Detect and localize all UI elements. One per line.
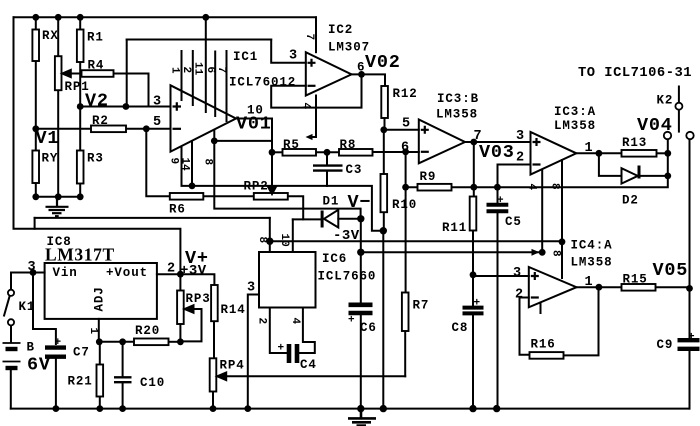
wire K2 stem — [678, 87, 680, 104]
junction dot IC8 pin3 — [30, 269, 37, 276]
svg-text:+: + — [278, 343, 285, 355]
wire IC2 noninverting input feed — [271, 40, 306, 63]
junction dot bottom rail V- column — [357, 405, 364, 412]
svg-text:8: 8 — [202, 159, 214, 166]
wire R14 bottom to RP4 — [213, 321, 215, 358]
wire pins9-14 row to R10 bottom node — [192, 186, 384, 231]
svg-text:RP2: RP2 — [244, 180, 269, 194]
svg-text:V04: V04 — [637, 115, 673, 136]
junction dot V02 node — [358, 71, 365, 78]
wire D2 branch down — [599, 153, 622, 176]
wire R9 right lead — [452, 186, 474, 188]
resistor R14 body — [211, 285, 218, 321]
svg-text:3: 3 — [513, 266, 522, 281]
junction dot ADJ pin1 — [96, 338, 103, 345]
op-amp IC3A minus symbol — [533, 163, 541, 165]
wire rail-2 +3V distribution — [35, 229, 181, 274]
svg-text:IC3:A: IC3:A — [554, 105, 596, 119]
junction dot top rail RX — [32, 14, 39, 21]
svg-text:R16: R16 — [531, 338, 556, 352]
wire D1 anode to V- node — [338, 218, 361, 220]
svg-text:+: + — [474, 298, 481, 310]
wire R3 bottom to ground row — [79, 184, 81, 197]
resistor R4 body — [82, 70, 114, 77]
op-amp IC1 minus input symbol — [173, 128, 182, 130]
wire IC8 pin2 to V+ node and R14 — [157, 274, 215, 285]
wire RY top lead — [35, 129, 37, 151]
junction dot IC4A pin3 node — [470, 271, 477, 278]
svg-text:2: 2 — [180, 67, 192, 74]
svg-text:3: 3 — [247, 281, 256, 296]
wire pin3 to K1 — [11, 272, 33, 274]
svg-text:V02: V02 — [365, 52, 401, 73]
wire -3V rail A — [270, 240, 562, 242]
junction dot pin8 feedback row — [211, 138, 218, 145]
ground bottom center — [348, 409, 376, 426]
wire IC2 feedback loop — [271, 74, 361, 107]
svg-text:B: B — [27, 341, 35, 355]
capacitor C9 plates polarized — [678, 340, 700, 349]
wire C3 top lead — [326, 152, 328, 164]
svg-text:R6: R6 — [169, 203, 186, 217]
wire IC3A pin4 column to rail B — [541, 170, 543, 253]
wire IC3A pin2 loop to C5 — [498, 165, 531, 204]
wire K2 right contact column to V05 and C9 — [689, 139, 691, 288]
svg-text:D2: D2 — [622, 194, 639, 208]
svg-text:C3: C3 — [346, 163, 363, 177]
svg-text:V2: V2 — [85, 91, 109, 112]
junction dot rail B right end — [539, 249, 546, 256]
junction dot ground row RY — [32, 193, 39, 200]
arrow mark IC2 pin4 line end — [306, 134, 313, 140]
svg-text:R8: R8 — [340, 138, 357, 152]
wire R3 top lead from V2 — [79, 107, 81, 151]
svg-text:7: 7 — [215, 67, 227, 74]
svg-text:6: 6 — [204, 67, 216, 74]
svg-text:RY: RY — [42, 152, 59, 166]
resistor R16 body — [530, 352, 564, 359]
svg-text:7: 7 — [303, 34, 315, 41]
svg-text:R9: R9 — [420, 170, 437, 184]
svg-text:3: 3 — [516, 129, 525, 144]
wire R21 top lead — [99, 342, 101, 365]
capacitor C4 plates polarized vertical — [289, 344, 297, 363]
svg-text:R2: R2 — [92, 114, 109, 128]
op-amp U-IC3A triangle — [531, 132, 577, 175]
wire IC2 pin4 line — [309, 96, 316, 138]
svg-text:R4: R4 — [88, 59, 105, 73]
svg-text:6V: 6V — [27, 355, 51, 376]
wire V- column to C6 and ground — [360, 219, 362, 303]
wire R5 left lead — [272, 151, 283, 153]
wire IC1 pin5 to R6 — [146, 129, 170, 197]
svg-text:5: 5 — [402, 117, 411, 132]
svg-text:IC2: IC2 — [328, 23, 353, 37]
svg-text:LM358: LM358 — [436, 108, 478, 122]
potentiometer RP4 body — [210, 358, 217, 391]
svg-text:8: 8 — [256, 237, 268, 244]
svg-text:R20: R20 — [135, 324, 160, 338]
wire R5 to C3 node to R8 — [316, 151, 339, 153]
resistor RY — [32, 151, 39, 184]
svg-text:8: 8 — [550, 250, 562, 257]
junction dot IC6 pin8 rail A — [266, 238, 273, 245]
wire IC6 pin3 to ground — [248, 295, 259, 409]
wire IC6 pin2 to C4 — [270, 308, 286, 354]
junction dot IC1 pin5 feedback tap — [143, 125, 150, 132]
wire R10 bottom lead — [383, 212, 385, 231]
wire IC1 pin14 lead — [191, 141, 193, 186]
svg-text:V01: V01 — [236, 114, 272, 135]
IC8 LM317T box — [45, 263, 157, 319]
wire RP3 bottom lead — [179, 324, 181, 342]
svg-text:+: + — [348, 315, 355, 327]
svg-text:D1: D1 — [323, 195, 340, 209]
junction dot R9 right node — [470, 184, 477, 191]
resistor R11 body — [470, 197, 477, 231]
junction dot V+ node — [177, 271, 184, 278]
svg-text:1: 1 — [87, 328, 99, 335]
junction dot rail A right end — [559, 238, 566, 245]
resistor RX — [32, 30, 39, 62]
svg-text:R3: R3 — [87, 152, 104, 166]
wire left main rail — [14, 17, 35, 229]
junction dot R9 left node — [402, 184, 409, 191]
wire IC34 pin8 power column — [561, 160, 563, 278]
wire pin3 node down to C7 — [33, 273, 56, 345]
svg-text:4: 4 — [526, 184, 538, 191]
svg-text:R13: R13 — [622, 136, 647, 150]
wire R21 bottom lead — [99, 397, 101, 409]
junction dot V01 R5 tap — [269, 149, 276, 156]
resistor R9 body — [418, 184, 452, 191]
svg-text:R1: R1 — [87, 31, 104, 45]
wire RP3 wiper loop — [180, 309, 201, 341]
diode D1 — [322, 210, 338, 228]
svg-text:ICL76012: ICL76012 — [229, 76, 296, 90]
junction dot bottom rail IC6 pin3 — [244, 405, 251, 412]
wire IC6 pin8 drop from rail-1 — [269, 218, 271, 252]
svg-text:IC6: IC6 — [322, 252, 347, 266]
junction dot V1 node — [32, 125, 39, 132]
svg-text:IC4:A: IC4:A — [571, 239, 613, 253]
resistor R2 body — [91, 126, 126, 133]
op-amp IC4A minus symbol — [531, 296, 539, 298]
svg-text:1: 1 — [585, 141, 594, 156]
svg-text:V03: V03 — [479, 142, 515, 163]
junction dot C5 column row — [494, 184, 501, 191]
wire IC2 output to R12 — [352, 74, 386, 86]
wire IC4A pin3 row — [473, 275, 529, 277]
wire D1 cathode to IC6 pin10 — [292, 219, 294, 252]
svg-text:C5: C5 — [505, 215, 522, 229]
wire long row R9 node to D2 node — [474, 176, 668, 187]
svg-text:14: 14 — [179, 158, 191, 172]
wire V1 row to R2 — [36, 128, 91, 130]
wire IC3A output to R13 — [576, 152, 621, 154]
wire V01 output to RP2 wiper column — [236, 119, 272, 188]
op-amp IC3A plus symbol — [533, 138, 541, 146]
resistor R20 body — [134, 339, 169, 346]
wire RP1 bottom to ground row — [57, 90, 59, 197]
wire RX top lead — [35, 17, 37, 29]
potentiometer RP2 wiper arrow — [268, 186, 276, 194]
svg-text:V1: V1 — [36, 128, 60, 149]
svg-text:V05: V05 — [653, 260, 689, 281]
junction dot bottom rail C7 — [53, 405, 60, 412]
svg-text:LM307: LM307 — [328, 41, 370, 55]
svg-text:Vin: Vin — [53, 266, 78, 280]
wire bottom ground rail — [11, 408, 690, 410]
svg-text:5: 5 — [153, 115, 162, 130]
diode D2 — [622, 166, 640, 184]
wire battery to bottom rail — [10, 370, 12, 409]
wire R9 left lead and pin6 column — [406, 152, 418, 187]
wire C3 bottom lead — [326, 172, 328, 186]
wire rail B — [361, 251, 542, 253]
capacitor C8 plates polarized — [463, 308, 484, 314]
wire C5 bottom to ground — [497, 214, 499, 409]
svg-text:C4: C4 — [300, 358, 317, 372]
wire V03 to R9 node — [473, 142, 475, 187]
svg-text:11: 11 — [192, 62, 204, 76]
junction dot bottom rail C5 — [493, 405, 500, 412]
junction dot C10 top — [119, 338, 126, 345]
svg-text:2: 2 — [515, 288, 524, 303]
svg-text:1: 1 — [585, 275, 594, 290]
wire C7 bottom to rail — [55, 360, 57, 409]
svg-text:+: + — [497, 195, 504, 207]
wire IC6 pin4 to C4 — [300, 308, 315, 354]
op-amp IC4A plus symbol — [531, 272, 539, 280]
svg-text:R7: R7 — [413, 299, 430, 313]
junction dot V03 node — [470, 139, 477, 146]
potentiometer RP3 body — [177, 291, 184, 325]
junction dot V2 node — [77, 103, 84, 110]
junction dot R10 bottom node — [380, 227, 387, 234]
svg-text:C6: C6 — [360, 321, 377, 335]
svg-text:9: 9 — [168, 158, 180, 165]
battery B plates — [3, 343, 21, 368]
wire V04 terminal column — [667, 139, 669, 176]
svg-text:-3V: -3V — [333, 228, 360, 244]
arrow mark rail B — [532, 249, 540, 256]
svg-text:IC3:B: IC3:B — [437, 92, 479, 106]
junction dot C3 node — [324, 149, 331, 156]
svg-text:+: + — [688, 332, 695, 344]
svg-text:R11: R11 — [442, 221, 467, 235]
wire R11 bottom through rails to IC4 pin3 node and C8 — [472, 231, 474, 306]
capacitor C6 plates polarized — [349, 305, 373, 313]
resistor R10 body — [381, 174, 388, 212]
svg-text:V−: V− — [348, 192, 372, 213]
wire R7 column top — [405, 187, 407, 292]
op-amp IC1 plus input symbol — [173, 102, 182, 110]
resistor R6 body — [170, 193, 204, 200]
capacitor C10 plates — [114, 377, 132, 382]
svg-text:ADJ: ADJ — [93, 286, 107, 311]
wire IC1 pin1 stub — [181, 51, 183, 100]
junction dot IC3B pin5 node — [380, 126, 387, 133]
svg-text:10: 10 — [278, 234, 290, 247]
svg-text:K2: K2 — [657, 94, 674, 108]
potentiometer RP2 body — [254, 193, 288, 200]
svg-text:RP3: RP3 — [186, 292, 211, 306]
wire IC1 pin7 stub — [226, 51, 228, 121]
op-amp U-IC4A triangle — [529, 267, 577, 307]
svg-text:RX: RX — [42, 29, 59, 43]
junction dot V- rail B — [357, 249, 364, 256]
resistor R15 body — [622, 284, 656, 291]
resistor R8 body — [339, 149, 373, 156]
wire IC4A pin4 stub — [540, 303, 542, 314]
svg-text:IC1: IC1 — [233, 50, 258, 64]
junction dot IC4A output — [596, 284, 603, 291]
wire R16 right lead loop to output — [564, 287, 599, 355]
wire ground row — [36, 196, 80, 198]
capacitor C3 plates — [313, 166, 343, 171]
wire V01 feedback row — [214, 140, 272, 142]
wire V2 row to IC1 pin3 — [80, 106, 170, 108]
wire K2 pole lower — [678, 109, 680, 131]
wire RP4 wiper rail — [218, 375, 405, 377]
svg-text:3: 3 — [289, 49, 298, 64]
wire IC4A pin2 loop to R16 — [520, 298, 530, 355]
op-amp U-IC2 triangle — [306, 52, 352, 95]
wire IC3B output row V03 — [465, 141, 531, 143]
svg-text:2: 2 — [516, 151, 525, 166]
capacitor C5 plates polarized — [487, 205, 509, 212]
svg-text:R12: R12 — [393, 87, 418, 101]
wire IC1 pin6 stub — [214, 52, 216, 117]
wire R6 to RP2 — [203, 195, 254, 197]
svg-text:4: 4 — [300, 103, 312, 110]
op-amp IC3B plus symbol — [421, 126, 429, 134]
svg-text:+Vout: +Vout — [106, 266, 148, 280]
resistor R13 body — [622, 150, 657, 157]
junction dot bottom rail RP4 — [210, 405, 217, 412]
potentiometer RP3 wiper arrow — [185, 305, 202, 313]
junction dot bottom rail C10 — [119, 405, 126, 412]
svg-text:R14: R14 — [221, 303, 246, 317]
svg-text:R21: R21 — [68, 375, 93, 389]
resistor R7 body — [402, 293, 409, 332]
svg-text:R5: R5 — [283, 138, 300, 152]
junction dot V2 riser — [123, 103, 130, 110]
wire RP4 bottom lead — [212, 392, 214, 409]
junction dot pins 9-14 — [189, 183, 196, 190]
resistor R3 — [77, 151, 84, 184]
capacitor C7 plates polarized — [45, 348, 66, 357]
IC6 ICL7660 box — [259, 252, 316, 308]
wire R9 node to R11 — [473, 187, 475, 196]
junction dot bottom rail R21 — [96, 405, 103, 412]
wire RP2 right lead to D1 cathode — [288, 196, 303, 219]
wire IC1 pin8 to V- — [214, 130, 360, 219]
junction dot top rail IC1 pin11 — [202, 14, 209, 21]
svg-text:LM317T: LM317T — [45, 245, 115, 265]
svg-text:6: 6 — [401, 141, 410, 156]
svg-text:4: 4 — [289, 318, 301, 325]
wire rail-1 V+ to D1/IC6 — [35, 217, 270, 219]
svg-text:TO ICL7106-31: TO ICL7106-31 — [578, 65, 692, 81]
resistor R12 body — [381, 86, 388, 118]
svg-text:ICL7660: ICL7660 — [318, 270, 377, 284]
wire IC1 pin9 lead — [182, 147, 193, 186]
junction dot bottom rail R10 column — [380, 405, 387, 412]
wire IC3A pin3 row from V03 — [474, 141, 531, 143]
junction dot V- node — [357, 215, 364, 222]
svg-text:2: 2 — [167, 262, 176, 277]
junction dot ground row R3 — [77, 193, 84, 200]
wire R8 right lead to IC3B pin6 — [373, 151, 419, 153]
svg-text:1: 1 — [169, 67, 181, 74]
op-amp IC2 minus symbol — [308, 85, 316, 87]
wire ADJ row R20 — [99, 341, 134, 343]
junction dot bottom rail R11 C8 — [469, 405, 476, 412]
wire R13 right lead — [657, 152, 668, 154]
wire top V+ rail — [14, 16, 317, 18]
resistor R5 body — [283, 149, 317, 156]
junction dot V05 node — [686, 285, 693, 292]
wire R12R10 column crossing pin6 row — [383, 130, 385, 174]
potentiometer RP1 wiper arrow — [62, 70, 81, 77]
op-amp U-IC3B triangle — [419, 120, 465, 164]
junction dot top rail RP1 — [55, 14, 62, 21]
junction dot ground row RP1 — [55, 193, 62, 200]
junction dot D2 cathode — [664, 173, 671, 180]
wire R12 bottom to IC3B pin5 — [385, 118, 419, 130]
svg-text:K1: K1 — [19, 300, 36, 314]
wire R10 node to bottom rail — [382, 231, 384, 409]
wire R7 bottom to pin3 rail — [404, 331, 406, 376]
svg-text:3: 3 — [28, 260, 37, 275]
resistor R1 — [77, 30, 84, 63]
wire RP1 top lead — [57, 17, 59, 56]
svg-text:+: + — [55, 337, 62, 349]
wire R1 top lead — [79, 17, 81, 29]
wire RY bottom to ground row — [35, 183, 37, 197]
node V04 terminal circle — [664, 132, 671, 139]
switch K1 — [8, 290, 14, 326]
svg-text:2: 2 — [256, 318, 268, 325]
junction dot IC3B pin6 R9 — [402, 148, 409, 155]
wire IC2 pin7 from top rail — [315, 17, 317, 52]
ground top-left — [46, 197, 69, 216]
junction dot IC3A output — [596, 150, 603, 157]
svg-text:RP4: RP4 — [220, 359, 245, 373]
svg-text:R10: R10 — [392, 198, 417, 212]
wire R15 right lead to V05 node — [656, 286, 690, 288]
switch K2 contacts — [664, 103, 694, 140]
wire IC4A output row V05 — [577, 286, 622, 288]
svg-text:+3V: +3V — [180, 263, 207, 279]
wire IC1 pin11 to top rail — [205, 17, 207, 112]
svg-text:C8: C8 — [452, 321, 469, 335]
wire K1 to battery — [10, 325, 12, 341]
op-amp IC3B minus symbol — [421, 151, 429, 153]
potentiometer RP1 body — [55, 56, 62, 90]
wire RP3 top lead — [179, 274, 181, 290]
wire C10 leads — [122, 342, 124, 377]
wire D2 cathode to V04 column — [641, 175, 668, 177]
svg-text:LM358: LM358 — [571, 256, 613, 270]
junction dot RP3 bottom — [177, 338, 184, 345]
svg-text:8: 8 — [549, 183, 561, 190]
op-amp U-IC1 triangle — [171, 85, 237, 151]
wire second rail to IC2 — [127, 39, 272, 41]
wire IC1 pin2 stub — [192, 51, 194, 105]
